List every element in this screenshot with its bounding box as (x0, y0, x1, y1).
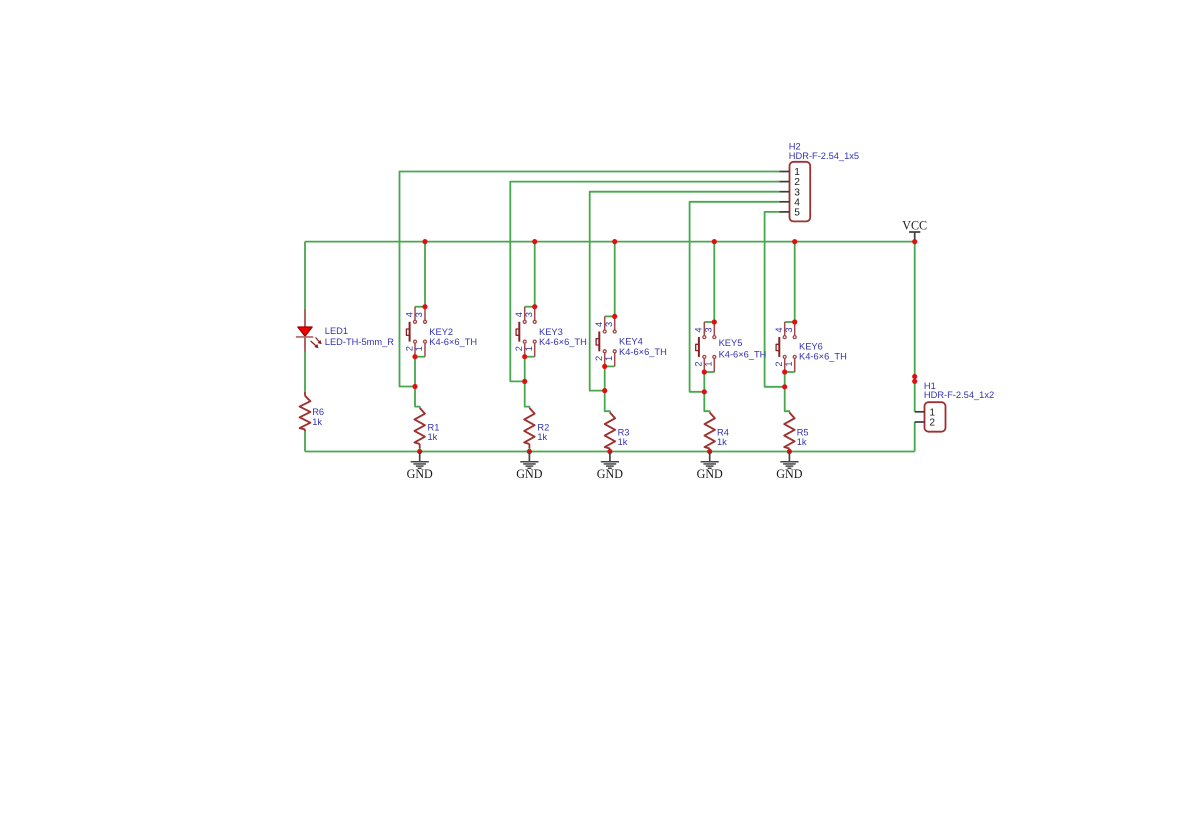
svg-text:2: 2 (694, 361, 704, 366)
svg-text:4: 4 (404, 312, 414, 317)
svg-text:1k: 1k (428, 432, 438, 442)
svg-text:4: 4 (694, 327, 704, 332)
svg-text:K4-6×6_TH: K4-6×6_TH (429, 337, 477, 347)
svg-text:KEY5: KEY5 (719, 338, 743, 348)
svg-text:2: 2 (404, 346, 414, 351)
svg-text:GND: GND (597, 467, 623, 481)
svg-text:K4-6×6_TH: K4-6×6_TH (799, 352, 847, 362)
svg-text:1: 1 (414, 346, 424, 351)
svg-text:5: 5 (794, 208, 800, 219)
svg-text:R4: R4 (717, 427, 729, 437)
svg-text:3: 3 (414, 312, 424, 317)
svg-text:1: 1 (604, 356, 614, 361)
svg-text:LED1: LED1 (325, 326, 348, 336)
svg-text:KEY4: KEY4 (619, 337, 643, 347)
svg-text:1: 1 (524, 346, 534, 351)
svg-text:R6: R6 (312, 407, 324, 417)
svg-text:VCC: VCC (902, 219, 927, 233)
svg-text:1k: 1k (618, 437, 628, 447)
svg-text:R2: R2 (537, 423, 549, 433)
svg-text:GND: GND (407, 467, 433, 481)
svg-text:LED-TH-5mm_R: LED-TH-5mm_R (325, 337, 394, 347)
svg-text:HDR-F-2.54_1x5: HDR-F-2.54_1x5 (789, 151, 859, 161)
svg-text:K4-6×6_TH: K4-6×6_TH (619, 347, 667, 357)
svg-text:4: 4 (514, 312, 524, 317)
svg-text:1: 1 (784, 361, 794, 366)
svg-text:4: 4 (774, 327, 784, 332)
svg-text:2: 2 (514, 346, 524, 351)
svg-text:4: 4 (594, 322, 604, 327)
svg-text:K4-6×6_TH: K4-6×6_TH (539, 337, 587, 347)
svg-text:1k: 1k (797, 437, 807, 447)
svg-text:GND: GND (697, 467, 723, 481)
svg-text:3: 3 (524, 312, 534, 317)
svg-text:3: 3 (704, 327, 714, 332)
svg-text:1: 1 (704, 361, 714, 366)
svg-text:3: 3 (604, 322, 614, 327)
svg-text:1k: 1k (312, 417, 322, 427)
svg-text:1k: 1k (537, 432, 547, 442)
svg-text:GND: GND (516, 467, 542, 481)
svg-text:R1: R1 (428, 423, 440, 433)
svg-text:2: 2 (774, 361, 784, 366)
svg-text:2: 2 (594, 356, 604, 361)
svg-text:R5: R5 (797, 427, 809, 437)
svg-text:KEY3: KEY3 (539, 327, 563, 337)
svg-text:KEY6: KEY6 (799, 341, 823, 351)
svg-text:2: 2 (929, 418, 935, 429)
svg-text:K4-6×6_TH: K4-6×6_TH (719, 350, 767, 360)
svg-text:1k: 1k (717, 437, 727, 447)
svg-text:3: 3 (784, 327, 794, 332)
svg-text:HDR-F-2.54_1x2: HDR-F-2.54_1x2 (924, 390, 994, 400)
svg-text:KEY2: KEY2 (429, 327, 453, 337)
svg-text:GND: GND (776, 467, 802, 481)
svg-text:R3: R3 (618, 427, 630, 437)
